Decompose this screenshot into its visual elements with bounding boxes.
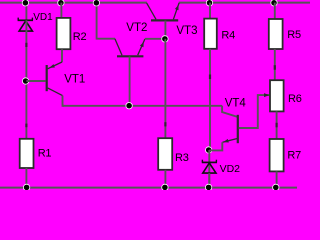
node junction at VT1 base bbox=[22, 78, 28, 84]
node junction top rail at corner bbox=[93, 0, 99, 6]
wire VT1 collector drop bbox=[63, 96, 65, 106]
resistor R5 bbox=[269, 19, 283, 49]
svg-text:VD2: VD2 bbox=[220, 163, 241, 175]
wire VT4 emitter path bbox=[209, 142, 222, 150]
wire R3 column bbox=[164, 39, 166, 138]
svg-text:R7: R7 bbox=[287, 150, 301, 162]
node junction bottom rail at R7 bbox=[273, 184, 279, 190]
wire VT2 emitter to VT3 base bbox=[145, 38, 166, 40]
wire R1 bottom bbox=[25, 168, 27, 188]
label R6 bbox=[288, 93, 302, 105]
label VT3 bbox=[176, 25, 197, 37]
svg-text:VT1: VT1 bbox=[64, 74, 85, 86]
tick on R3 column bbox=[164, 122, 166, 126]
transistor Q VT2 bbox=[115, 39, 145, 57]
svg-text:R2: R2 bbox=[73, 31, 87, 43]
svg-text:R4: R4 bbox=[221, 29, 235, 41]
label VT4 bbox=[225, 98, 247, 110]
resistor R6 bbox=[270, 80, 284, 111]
svg-text:VT3: VT3 bbox=[176, 25, 197, 37]
wire R2 bottom lead bbox=[61, 49, 63, 62]
wire VD2 top lead bbox=[208, 150, 210, 188]
tick on R5 R6 wire bbox=[274, 65, 276, 70]
label VT1 bbox=[64, 74, 85, 86]
wire R5 to R6 bbox=[274, 49, 276, 80]
wire VT2 base lead bbox=[129, 57, 131, 106]
label R4 bbox=[221, 29, 235, 41]
node junction top rail at R5 bbox=[271, 0, 277, 6]
wire R7 bottom bbox=[276, 171, 278, 187]
svg-text:R6: R6 bbox=[288, 93, 302, 105]
label VD1 bbox=[33, 12, 53, 23]
wire VT3 base lead bbox=[164, 21, 166, 39]
svg-text:R5: R5 bbox=[287, 29, 301, 41]
wire top rail right segment bbox=[179, 2, 310, 4]
wire mid horizontal bus bbox=[63, 105, 223, 107]
arrow on VT4 collector wire bbox=[264, 93, 269, 97]
resistor R1 bbox=[20, 139, 34, 168]
diode VD1 bbox=[18, 18, 33, 32]
wire bottom rail bbox=[0, 187, 297, 189]
resistor R4 bbox=[204, 19, 217, 49]
node junction bottom rail left bbox=[23, 184, 29, 190]
wire corner from top rail to VT2 bbox=[97, 3, 115, 39]
wire R2 top lead bbox=[60, 3, 62, 18]
label R2 bbox=[73, 31, 87, 43]
tick on left column lower bbox=[25, 124, 27, 128]
wire VT4 base entry bbox=[222, 106, 238, 117]
label R7 bbox=[287, 150, 301, 162]
node junction top rail at R2 bbox=[58, 0, 64, 6]
node junction VT2 base to bus bbox=[126, 103, 132, 109]
resistor R7 bbox=[270, 139, 284, 171]
label R5 bbox=[287, 29, 301, 41]
wire VD1 column top bbox=[25, 3, 27, 20]
wire R5 top lead bbox=[274, 3, 276, 19]
svg-text:R3: R3 bbox=[175, 152, 189, 164]
svg-text:VT2: VT2 bbox=[126, 22, 147, 34]
wire top rail left segment bbox=[0, 2, 147, 4]
wire R4 bottom lead bbox=[209, 49, 211, 151]
label R3 bbox=[175, 152, 189, 164]
tick on R6 R7 wire bbox=[276, 123, 278, 128]
node junction VT3 base bbox=[162, 36, 168, 42]
wire R4 top lead bbox=[209, 3, 211, 19]
label VD2 bbox=[220, 163, 241, 175]
svg-text:R1: R1 bbox=[38, 147, 52, 159]
wire VT1 base bbox=[26, 80, 45, 82]
node junction R4 VD2 VT4 bbox=[206, 147, 212, 153]
node junction bottom rail at VD2 bbox=[205, 184, 211, 190]
wire R6 to R7 bbox=[276, 111, 278, 139]
wire VT4 collector path bbox=[239, 95, 270, 128]
node junction bottom rail at R3 bbox=[162, 184, 168, 190]
tick on R4 lead bbox=[209, 75, 211, 80]
diode VD2 bbox=[202, 160, 217, 173]
transistor Q VT4 bbox=[223, 115, 238, 143]
wire VD1 column middle bbox=[25, 20, 27, 139]
wire VD2 bottom lead bbox=[208, 173, 210, 188]
resistor R2 bbox=[57, 18, 71, 49]
svg-text:VT4: VT4 bbox=[225, 98, 247, 110]
label VT2 bbox=[126, 22, 147, 34]
tick on left column upper bbox=[25, 43, 27, 47]
label R1 bbox=[38, 147, 52, 159]
resistor R3 bbox=[158, 138, 172, 170]
wire R3 bottom bbox=[164, 170, 166, 188]
svg-text:VD1: VD1 bbox=[33, 12, 53, 23]
node junction top rail at VD1 bbox=[22, 0, 28, 6]
transistor Q VT3 bbox=[147, 3, 180, 21]
transistor Q VT1 bbox=[47, 62, 63, 96]
node junction top rail at R4 bbox=[206, 0, 212, 6]
